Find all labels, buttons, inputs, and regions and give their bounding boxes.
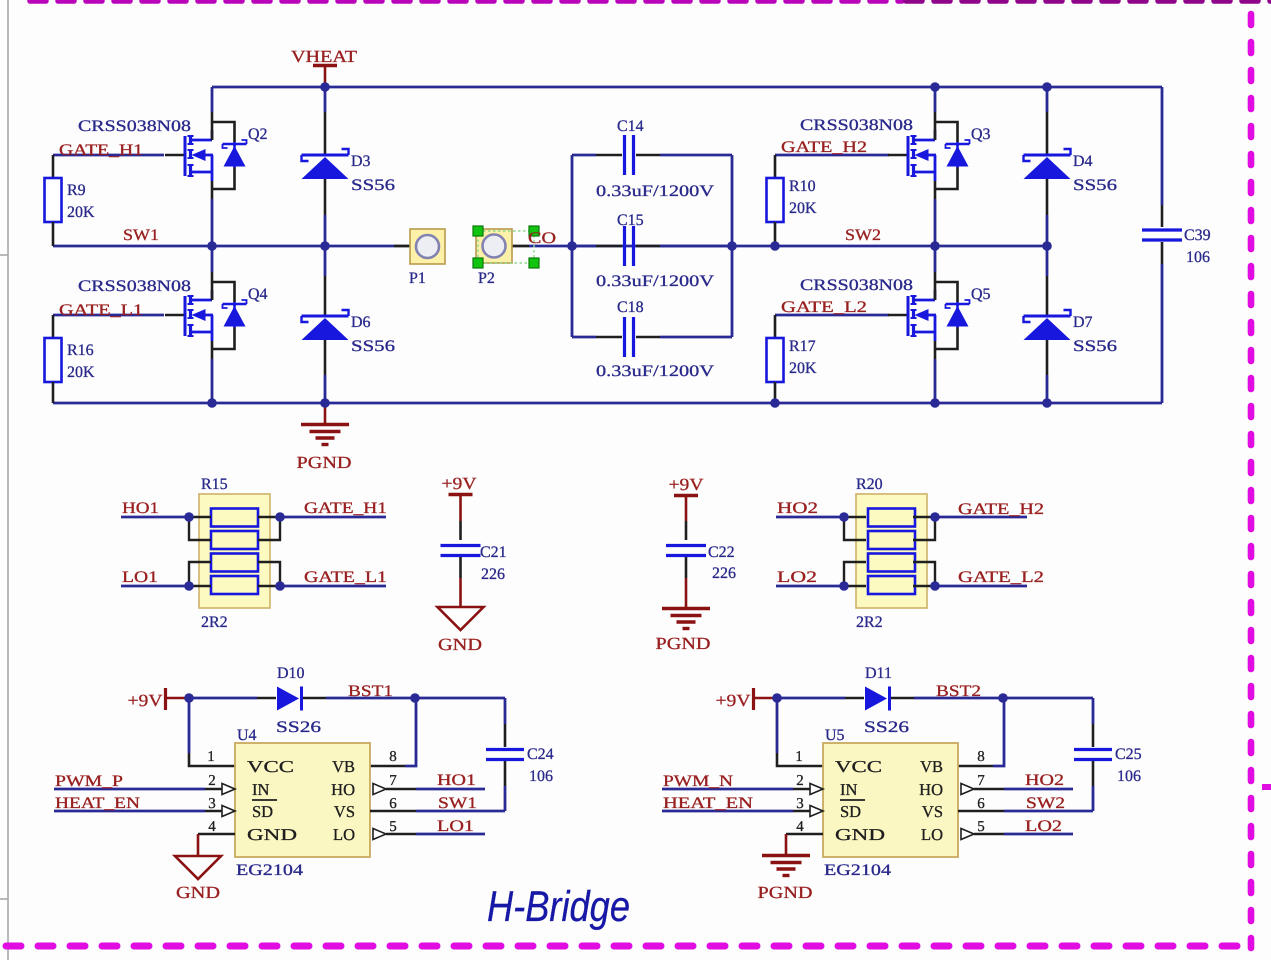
wire cap bank left rail (571, 155, 574, 337)
value 0.33uF/1200V (C15) (596, 273, 715, 290)
svg-text:HO: HO (331, 780, 355, 799)
net label GATE_H2 (781, 139, 867, 156)
wire BST1 (326, 697, 505, 700)
wire cap bank right rail (731, 155, 734, 337)
ground PGND (U5) (758, 834, 824, 902)
svg-text:SW1: SW1 (438, 795, 477, 812)
svg-text:HO: HO (919, 780, 943, 799)
capacitor C18 (572, 317, 732, 357)
wire LO2 (776, 585, 844, 588)
wire SW1 row left (53, 245, 410, 248)
svg-text:PWM_N: PWM_N (663, 773, 734, 790)
label 2R2 (R15) (201, 614, 228, 631)
net label SW1 (438, 795, 477, 812)
junction dots R20 (839, 512, 940, 591)
svg-text:2: 2 (796, 773, 804, 789)
svg-text:GND: GND (247, 825, 297, 844)
svg-text:U5: U5 (825, 727, 845, 744)
svg-text:VB: VB (332, 757, 355, 776)
wires R15 left bracket (189, 517, 211, 540)
capacitor C25 (1074, 698, 1112, 811)
svg-text:SW2: SW2 (845, 227, 881, 244)
diode D3 (302, 87, 349, 246)
svg-text:HO1: HO1 (437, 772, 476, 789)
svg-text:GATE_L2: GATE_L2 (958, 569, 1044, 586)
svg-text:EG2104: EG2104 (824, 862, 891, 879)
label R15 (201, 476, 228, 493)
net label SW2 (1026, 795, 1065, 812)
svg-text:226: 226 (712, 565, 736, 582)
svg-text:R16: R16 (67, 342, 94, 359)
pin 6 VS wire (U5) (958, 810, 1093, 813)
label Q3 (971, 126, 991, 143)
svg-text:SS26: SS26 (864, 719, 909, 736)
svg-text:0.33uF/1200V: 0.33uF/1200V (596, 273, 715, 290)
wires R20 right bracket (913, 517, 935, 586)
transistor Q4 (165, 246, 247, 403)
resistor R17 (767, 315, 784, 403)
net label HO1 (122, 500, 159, 517)
svg-text:Q4: Q4 (248, 286, 268, 303)
pin 2 input arrow (U5) (793, 784, 823, 795)
junction dots R15 (184, 512, 285, 591)
svg-text:VS: VS (922, 802, 943, 821)
label P1 (409, 270, 426, 287)
svg-text:8: 8 (977, 749, 985, 765)
power VHEAT (291, 47, 358, 87)
wire GATE_H2 (775, 154, 889, 157)
svg-text:20K: 20K (67, 204, 95, 221)
wire VCC drop (U5) (777, 698, 823, 766)
svg-text:SD: SD (252, 802, 273, 821)
wire GATE_H2 (R20 out) (935, 516, 1027, 519)
svg-text:SS56: SS56 (351, 177, 395, 194)
pin numbers U5 left (795, 749, 804, 835)
label R16 20K (67, 342, 95, 381)
label D10 SS26 (276, 665, 321, 736)
svg-text:IN: IN (840, 780, 857, 799)
pin 3 input arrow (U5) (793, 806, 823, 817)
svg-text:PGND: PGND (758, 883, 813, 902)
svg-text:HEAT_EN: HEAT_EN (55, 795, 141, 812)
power +9V (C21) (442, 474, 478, 521)
label Q2 (248, 126, 268, 143)
svg-text:GATE_L1: GATE_L1 (59, 302, 143, 319)
diode D6 (302, 246, 349, 403)
svg-text:BST2: BST2 (936, 683, 981, 700)
ground PGND (bridge) (297, 403, 352, 472)
label C22 226 (708, 544, 736, 582)
svg-text:HO2: HO2 (777, 500, 818, 517)
pin names U4 (247, 757, 355, 844)
svg-text:IN: IN (252, 780, 269, 799)
net label GATE_L1 (mid) (304, 569, 387, 586)
svg-text:P1: P1 (409, 270, 426, 287)
net label HO2 (777, 500, 818, 517)
svg-text:GATE_H2: GATE_H2 (781, 139, 867, 156)
net label GATE_L2 (781, 299, 867, 316)
label U5 (825, 727, 845, 744)
resistor R10 (767, 155, 784, 246)
svg-text:CO: CO (528, 230, 556, 247)
svg-text:SW1: SW1 (123, 227, 159, 244)
transistor Q5 (888, 246, 970, 403)
svg-text:6: 6 (977, 796, 985, 812)
label C15 (617, 212, 644, 229)
svg-text:CRSS038N08: CRSS038N08 (800, 277, 913, 294)
capacitor C39 (1142, 87, 1182, 403)
label 2R2 (R20) (856, 614, 883, 631)
svg-text:R17: R17 (789, 338, 816, 355)
svg-text:VS: VS (334, 802, 355, 821)
svg-text:+9V: +9V (716, 691, 752, 710)
svg-text:LO1: LO1 (122, 569, 158, 586)
svg-text:D11: D11 (865, 665, 892, 682)
svg-text:3: 3 (208, 796, 216, 812)
net label CO (528, 230, 556, 247)
svg-text:2R2: 2R2 (856, 614, 883, 631)
label D4 SS56 (1073, 153, 1117, 194)
pin 5 output (U4) (373, 829, 485, 840)
transistor Q3 (888, 87, 970, 246)
svg-text:LO: LO (921, 825, 943, 844)
wire BST2 (914, 697, 1093, 700)
svg-text:D3: D3 (351, 153, 371, 170)
wire LO1 (121, 585, 189, 588)
svg-text:PWM_P: PWM_P (55, 773, 123, 790)
pin 3 input arrow (U4) (205, 806, 235, 817)
net label LO1 (437, 818, 474, 835)
svg-text:SS56: SS56 (351, 338, 395, 355)
svg-text:R10: R10 (789, 178, 816, 195)
sheet frame left edge (0, 0, 8, 960)
value 0.33uF/1200V (C14) (596, 183, 715, 200)
label C24 106 (527, 746, 554, 785)
selection handles around P2 (473, 226, 539, 268)
wire VB drop (U4) (370, 698, 416, 766)
label R9 20K (67, 182, 95, 221)
net label GATE_L1 (59, 302, 143, 319)
svg-text:SS56: SS56 (1073, 177, 1117, 194)
svg-text:SS26: SS26 (276, 719, 321, 736)
pin numbers U5 right (977, 749, 985, 835)
net label LO2 (1025, 818, 1062, 835)
svg-text:GATE_H1: GATE_H1 (59, 142, 143, 159)
wires R15 left bracket low (189, 562, 211, 586)
svg-text:C15: C15 (617, 212, 644, 229)
svg-text:R9: R9 (67, 182, 86, 199)
label C18 (617, 299, 644, 316)
svg-text:1: 1 (795, 749, 803, 765)
wire HEAT_EN (U5) (662, 810, 793, 813)
junction dots bottom rail (207, 398, 1052, 408)
svg-text:7: 7 (389, 773, 397, 789)
svg-text:CRSS038N08: CRSS038N08 (78, 278, 191, 295)
resistor network R15 (199, 494, 270, 608)
junction dots (U4) (184, 693, 420, 703)
wire +9V to D10 (189, 697, 276, 700)
svg-text:R20: R20 (856, 476, 883, 493)
wire PGND bottom rail (53, 402, 1162, 405)
svg-text:LO: LO (333, 825, 355, 844)
label D3 SS56 (351, 153, 395, 194)
wire PWM_N (662, 788, 793, 791)
svg-text:VHEAT: VHEAT (291, 47, 358, 66)
net label PWM_P (55, 773, 123, 790)
svg-text:226: 226 (481, 566, 505, 583)
pin names U5 (835, 757, 943, 844)
ground PGND (C22) (656, 578, 711, 653)
svg-text:HEAT_EN: HEAT_EN (663, 795, 754, 812)
label U4 (237, 727, 257, 744)
net label LO2 (777, 569, 817, 586)
junction dots top rail (320, 82, 1052, 92)
svg-text:GND: GND (176, 883, 220, 902)
power +9V (U4) (128, 688, 190, 710)
svg-text:GATE_L1: GATE_L1 (304, 569, 387, 586)
svg-text:20K: 20K (789, 360, 817, 377)
svg-text:106: 106 (529, 768, 553, 785)
net label HO1 (437, 772, 476, 789)
svg-text:VB: VB (920, 757, 943, 776)
svg-text:GND: GND (835, 825, 885, 844)
label R17 20K (789, 338, 817, 377)
svg-text:H-Bridge: H-Bridge (487, 883, 630, 931)
svg-text:0.33uF/1200V: 0.33uF/1200V (596, 183, 715, 200)
svg-text:C25: C25 (1115, 746, 1142, 763)
svg-text:BST1: BST1 (348, 683, 393, 700)
wire GATE_L2 (R20 out) (935, 585, 1027, 588)
pin 5 output (U5) (961, 829, 1073, 840)
net label HEAT_EN (U5) (663, 795, 754, 812)
label D11 SS26 (864, 665, 909, 736)
selection border bottom dashed line (6, 943, 1253, 950)
label EG2104 (U5) (824, 862, 891, 879)
power +9V (C22) (669, 475, 705, 521)
svg-text:LO2: LO2 (1025, 818, 1062, 835)
net label GATE_H2 (mid) (958, 501, 1044, 518)
svg-text:20K: 20K (789, 200, 817, 217)
label C21 226 (480, 544, 507, 583)
power +9V (U5) (716, 688, 778, 710)
svg-text:3: 3 (796, 796, 804, 812)
wire HO2 (776, 516, 844, 519)
net label SW2 (845, 227, 881, 244)
net label GATE_L2 (mid) (958, 569, 1044, 586)
title H-Bridge (487, 883, 630, 931)
svg-text:P2: P2 (478, 270, 495, 287)
net label BST1 (348, 683, 393, 700)
ground GND (U4) (175, 834, 235, 902)
wire SW1-CO row (512, 245, 1047, 248)
svg-text:D10: D10 (277, 665, 305, 682)
selection border right stub (1262, 784, 1271, 790)
transistor Q2 (165, 87, 247, 246)
label CRSS038N08 (Q3) (800, 117, 913, 134)
label CRSS038N08 (Q4) (78, 278, 191, 295)
svg-text:2R2: 2R2 (201, 614, 228, 631)
wire VB drop (U5) (958, 698, 1004, 766)
label C25 106 (1115, 746, 1142, 785)
svg-text:GATE_H2: GATE_H2 (958, 501, 1044, 518)
label Q4 (248, 286, 268, 303)
svg-text:D6: D6 (351, 314, 371, 331)
connector P1 (410, 229, 445, 264)
net label HO2 (1025, 772, 1064, 789)
selection border top dashed line (30, 0, 902, 4)
svg-text:SW2: SW2 (1026, 795, 1065, 812)
svg-text:CRSS038N08: CRSS038N08 (800, 117, 913, 134)
label C14 (617, 118, 644, 135)
label D7 SS56 (1073, 314, 1117, 355)
connector P2 (476, 229, 512, 263)
svg-text:SD: SD (840, 802, 861, 821)
capacitor C22 (666, 521, 706, 578)
svg-text:D7: D7 (1073, 314, 1093, 331)
wire GATE_L2 (775, 314, 889, 317)
svg-text:C18: C18 (617, 299, 644, 316)
label EG2104 (U4) (236, 862, 303, 879)
value 0.33uF/1200V (C18) (596, 363, 715, 380)
wire GATE_H1 (R15 out) (280, 516, 386, 519)
svg-text:2: 2 (208, 773, 216, 789)
capacitor C24 (486, 698, 524, 811)
label Q5 (971, 286, 991, 303)
wire GATE_H1 (53, 154, 164, 157)
capacitor C14 (572, 135, 732, 175)
wire VHEAT top rail (212, 86, 1162, 89)
svg-text:LO2: LO2 (777, 569, 817, 586)
pin 6 VS wire (U4) (370, 810, 505, 813)
pin 7 output (U5) (961, 784, 1073, 795)
svg-text:106: 106 (1117, 768, 1141, 785)
net label SW1 (123, 227, 159, 244)
selection border right dashed line (1248, 14, 1255, 948)
svg-text:5: 5 (389, 819, 397, 835)
diode D11 (865, 687, 914, 711)
wire GATE_L1 (53, 314, 164, 317)
svg-text:VCC: VCC (247, 757, 294, 776)
svg-text:SS56: SS56 (1073, 338, 1117, 355)
svg-text:PGND: PGND (656, 634, 711, 653)
svg-text:D4: D4 (1073, 153, 1093, 170)
wires R15 right bracket (258, 517, 280, 586)
junction dots (U5) (772, 693, 1008, 703)
svg-text:CRSS038N08: CRSS038N08 (78, 118, 191, 135)
diode D7 (1024, 246, 1071, 403)
svg-text:GND: GND (438, 635, 482, 654)
svg-text:LO1: LO1 (437, 818, 474, 835)
svg-text:U4: U4 (237, 727, 257, 744)
junction dots SW row (207, 241, 1052, 251)
svg-text:R15: R15 (201, 476, 228, 493)
svg-text:C22: C22 (708, 544, 735, 561)
label C39 106 (1184, 227, 1211, 266)
wire HEAT_EN (U4) (54, 810, 205, 813)
wire VCC drop (U4) (189, 698, 235, 766)
label CRSS038N08 (Q5) (800, 277, 913, 294)
svg-text:+9V: +9V (442, 474, 478, 493)
svg-text:GATE_H1: GATE_H1 (304, 500, 387, 517)
wire +9V to D11 (777, 697, 864, 700)
svg-text:HO2: HO2 (1025, 772, 1064, 789)
svg-text:EG2104: EG2104 (236, 862, 303, 879)
diode D4 (1024, 87, 1071, 246)
svg-text:Q3: Q3 (971, 126, 991, 143)
svg-text:0.33uF/1200V: 0.33uF/1200V (596, 363, 715, 380)
svg-text:PGND: PGND (297, 453, 352, 472)
label CRSS038N08 (Q2) (78, 118, 191, 135)
op-amp driver U4 EG2104 (235, 743, 370, 857)
net label BST2 (936, 683, 981, 700)
svg-text:20K: 20K (67, 364, 95, 381)
svg-text:C21: C21 (480, 544, 507, 561)
svg-text:+9V: +9V (128, 691, 164, 710)
svg-text:VCC: VCC (835, 757, 882, 776)
svg-text:1: 1 (207, 749, 215, 765)
wire GATE_L1 (R15 out) (280, 585, 386, 588)
svg-text:Q5: Q5 (971, 286, 991, 303)
wire PWM_P (54, 788, 205, 791)
wires R20 left bracket low (844, 562, 866, 586)
pin numbers U4 right (389, 749, 397, 835)
net label PWM_N (663, 773, 734, 790)
label D6 SS56 (351, 314, 395, 355)
pin numbers U4 left (207, 749, 216, 835)
pin 2 input arrow (U4) (205, 784, 235, 795)
svg-text:4: 4 (796, 819, 804, 835)
ground GND (C21) (438, 578, 484, 654)
svg-text:C14: C14 (617, 118, 644, 135)
capacitor C21 (441, 521, 481, 578)
svg-text:C39: C39 (1184, 227, 1211, 244)
svg-text:6: 6 (389, 796, 397, 812)
svg-text:C24: C24 (527, 746, 554, 763)
label R10 20K (789, 178, 817, 217)
svg-text:4: 4 (208, 819, 216, 835)
op-amp driver U5 EG2104 (823, 743, 958, 857)
svg-text:106: 106 (1186, 249, 1210, 266)
svg-text:7: 7 (977, 773, 985, 789)
svg-text:Q2: Q2 (248, 126, 268, 143)
net label GATE_H1 (mid) (304, 500, 387, 517)
svg-text:GATE_L2: GATE_L2 (781, 299, 867, 316)
net label HEAT_EN (U4) (55, 795, 141, 812)
resistor R9 (45, 155, 62, 246)
svg-text:8: 8 (389, 749, 397, 765)
resistor network R20 (856, 494, 927, 608)
net label GATE_H1 (59, 142, 143, 159)
diode D10 (277, 687, 326, 711)
pin 7 output (U4) (373, 784, 485, 795)
wire HO1 (121, 516, 189, 519)
wires R20 left bracket (844, 517, 866, 540)
svg-text:+9V: +9V (669, 475, 705, 494)
resistor R16 (45, 315, 62, 403)
label P2 (478, 270, 495, 287)
svg-text:5: 5 (977, 819, 985, 835)
label R20 (856, 476, 883, 493)
net label LO1 (122, 569, 158, 586)
svg-text:HO1: HO1 (122, 500, 159, 517)
capacitor C15 (572, 226, 732, 266)
